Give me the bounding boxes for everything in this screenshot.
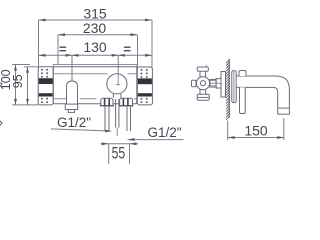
G1/2 left leader arrowhead xyxy=(105,130,112,133)
front view body plate xyxy=(53,67,137,104)
dimension 315 line xyxy=(39,19,153,21)
svg-text:150: 150 xyxy=(244,123,268,139)
dimension 230 right arrowhead xyxy=(131,33,138,36)
diverter knob circle xyxy=(107,74,127,94)
lever handle base tab xyxy=(68,110,74,113)
wall-mount escutcheon (side view) xyxy=(232,71,236,103)
dimension 100 arrowheads xyxy=(14,65,17,105)
dimension 95/100 bottom extension line xyxy=(12,104,38,106)
dimension 230 right extension line xyxy=(137,35,139,67)
dimension 150 right extension line xyxy=(283,118,285,140)
wall line xyxy=(228,59,230,118)
right handle block upper dark band xyxy=(138,78,152,84)
dimension 230 left extension line xyxy=(57,35,59,65)
right handle block bottom knurl dots xyxy=(141,98,148,103)
side view: valve hub circle xyxy=(196,77,209,90)
dimension 130 line xyxy=(39,54,153,56)
left handle block bottom knurl dots xyxy=(41,98,48,103)
side view: top port cap xyxy=(197,67,208,71)
side view: bottom port cap xyxy=(197,94,209,100)
lever cap above spout xyxy=(239,71,246,77)
body plate top chamfer line xyxy=(53,64,137,66)
right union nut facets xyxy=(123,98,128,106)
side view: stem centre line xyxy=(210,81,221,86)
svg-text:130: 130 xyxy=(83,39,107,55)
dimension 315 left extension line xyxy=(38,20,40,67)
side view: in-wall flange plate xyxy=(221,72,226,98)
lever rod (side view) xyxy=(240,87,246,113)
dimension 130 diverter-centre extension line xyxy=(117,55,119,94)
stray mark lower left edge xyxy=(0,121,2,126)
side view: hub inner circle xyxy=(200,81,205,86)
dimension 315 left arrowhead xyxy=(39,19,46,22)
centre pipe tail line xyxy=(116,128,118,137)
side view: bottom cap inner line xyxy=(198,96,209,98)
svg-text:G1/2": G1/2" xyxy=(148,125,182,140)
wall hatching xyxy=(226,59,230,120)
left handle block top knurl dots xyxy=(41,69,48,78)
dimension 55 right extension line xyxy=(129,144,131,164)
G1/2 right leader arrowhead xyxy=(128,138,135,141)
svg-text:=: = xyxy=(59,41,67,56)
svg-text:230: 230 xyxy=(83,20,107,36)
right handle block xyxy=(137,67,152,105)
dimension 95 top extension line xyxy=(24,66,38,68)
spout tube (side view) xyxy=(236,76,289,114)
dimension 230 left arrowhead xyxy=(58,33,65,36)
left union nut xyxy=(101,98,113,106)
svg-text:G1/2": G1/2" xyxy=(57,115,91,130)
left handle block lower dark band xyxy=(39,93,53,96)
left union nut facets xyxy=(105,98,110,106)
side view: top stub xyxy=(205,65,207,67)
side view: top neck xyxy=(200,71,206,77)
lever handle base xyxy=(65,104,77,109)
stray mark upper left edge xyxy=(0,83,2,87)
dimension 130 arrowhead at left end xyxy=(39,54,46,57)
left handle block upper dark band xyxy=(39,78,53,84)
dimension 130 arrowhead at right end xyxy=(145,54,152,57)
body plate lower groove line xyxy=(54,98,137,100)
dimension 130 arrowhead pair at lever centre xyxy=(66,54,79,57)
G1/2 right leader line xyxy=(128,139,184,141)
right handle block top knurl dots xyxy=(141,69,148,78)
dimension 100 line xyxy=(15,65,17,105)
diverter centreline inside circle xyxy=(116,74,120,85)
spout outlet joint line xyxy=(278,107,290,109)
dimension 315 right arrowhead xyxy=(145,19,152,22)
side view: outlet stem to wall xyxy=(210,80,216,88)
dimension 55 arrowheads xyxy=(102,142,137,145)
side view: left arm port xyxy=(192,80,197,87)
dimension 100 top extension tick xyxy=(12,64,30,66)
G1/2 left leader line xyxy=(51,129,110,131)
left inlet pipe xyxy=(105,106,109,131)
svg-text:55: 55 xyxy=(112,145,126,163)
dimension 130 arrowhead pair at diverter centre xyxy=(112,54,125,57)
dimension 150 line xyxy=(228,137,284,139)
spout outlet bottom xyxy=(278,113,290,115)
left handle block xyxy=(38,67,53,105)
body plate upper groove line xyxy=(54,73,137,75)
dimension 95 arrowheads xyxy=(26,67,29,105)
centre pipe xyxy=(116,99,119,128)
svg-text:95: 95 xyxy=(11,74,25,88)
side view: outlet stem nut xyxy=(216,79,221,88)
lever handle (front view) xyxy=(67,81,78,104)
dimension 150 left extension line xyxy=(227,121,229,141)
diverter stem xyxy=(113,94,121,98)
dimension 230 line xyxy=(58,34,138,36)
right handle block lower dark band xyxy=(138,93,152,96)
right union nut base line xyxy=(119,105,134,107)
dimension 150 arrowheads xyxy=(228,136,284,139)
svg-text:=: = xyxy=(123,41,131,56)
escutcheon inner line xyxy=(233,72,235,102)
left union nut base line xyxy=(100,105,114,107)
dimension 55 line xyxy=(101,143,139,145)
dimension 315 right extension line xyxy=(151,20,153,67)
side view: bottom neck xyxy=(200,90,206,95)
dimension 55 left extension line xyxy=(108,144,110,164)
dimension 95 line xyxy=(27,67,29,105)
right inlet pipe xyxy=(127,106,131,131)
right union nut xyxy=(120,98,133,106)
dimension 130 lever-centre extension line xyxy=(71,55,73,80)
